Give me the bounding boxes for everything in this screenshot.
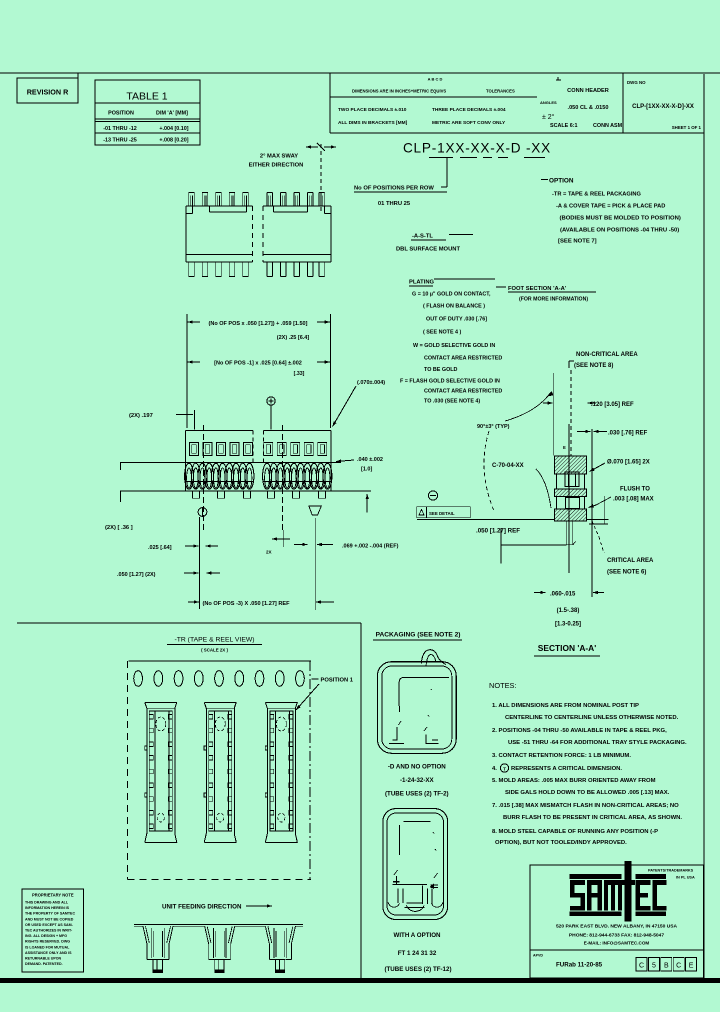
side view right half body xyxy=(263,205,331,207)
svg-text:-13 THRU -25: -13 THRU -25 xyxy=(103,138,137,144)
svg-text:.025 [.64]: .025 [.64] xyxy=(148,545,172,551)
tube 1 outline xyxy=(377,662,456,754)
svg-text:(BODIES MUST BE MOLDED TO POSI: (BODIES MUST BE MOLDED TO POSITION) xyxy=(560,216,681,222)
svg-text:3. CONTACT RETENTION FORCE: 1: 3. CONTACT RETENTION FORCE: 1 LB MINIMUM… xyxy=(492,753,631,759)
title block middle cell xyxy=(556,79,561,81)
revision box xyxy=(17,78,78,103)
dim .030 ref xyxy=(591,429,593,597)
samtec code boxes xyxy=(636,958,647,972)
svg-text:AND MUST NOT BE COPIED: AND MUST NOT BE COPIED xyxy=(25,917,74,921)
svg-text:PROPRIETARY NOTE: PROPRIETARY NOTE xyxy=(32,893,74,898)
tube 1 top bump xyxy=(421,650,445,665)
svg-text:7. .015 [.38] MAX MISMATCH FLA: 7. .015 [.38] MAX MISMATCH FLASH IN NON-… xyxy=(492,803,679,809)
svg-text:ANGLES: ANGLES xyxy=(540,100,557,105)
section body hatched bottom xyxy=(554,509,586,521)
svg-text:SIDE GALS HOLD DOWN TO BE ALLO: SIDE GALS HOLD DOWN TO BE ALLOWED .005 [… xyxy=(505,790,670,796)
side view left half top pins xyxy=(188,193,190,207)
svg-text:CENTERLINE TO CENTERLINE UNLES: CENTERLINE TO CENTERLINE UNLESS OTHERWIS… xyxy=(505,715,679,721)
svg-text:TOLERANCES: TOLERANCES xyxy=(486,89,515,94)
svg-text:(2X) .197: (2X) .197 xyxy=(129,413,153,419)
svg-text:-TR = TAPE & REEL PACKAGING: -TR = TAPE & REEL PACKAGING xyxy=(552,192,642,198)
datum circle symbol xyxy=(428,491,437,500)
angle leader solid arc xyxy=(505,392,551,421)
foot section callout xyxy=(496,286,506,288)
svg-text:-A & COVER TAPE = PICK & PLACE: -A & COVER TAPE = PICK & PLACE PAD xyxy=(556,204,665,210)
right vertical ext with up arrow xyxy=(366,494,368,512)
svg-text:REVISION R: REVISION R xyxy=(27,88,69,97)
svg-text:(No OF POS x .050 [1.27]) + .0: (No OF POS x .050 [1.27]) + .059 [1.50] xyxy=(209,321,308,327)
svg-text:DIM 'A' [MM]: DIM 'A' [MM] xyxy=(156,111,188,117)
svg-text:OR USED EXCEPT AS SAM-: OR USED EXCEPT AS SAM- xyxy=(25,923,74,927)
extension line right xyxy=(314,518,316,610)
small cross mark xyxy=(272,538,290,540)
svg-text:.050 CL & .0150: .050 CL & .0150 xyxy=(568,105,609,111)
section body hatched top xyxy=(554,456,586,474)
table 1 box xyxy=(95,80,200,145)
svg-text:POSITION 1: POSITION 1 xyxy=(321,678,354,684)
option callout xyxy=(541,179,548,181)
svg-text:2° MAX SWAY: 2° MAX SWAY xyxy=(260,154,298,160)
svg-text:CONN ASM: CONN ASM xyxy=(593,123,623,129)
svg-text:2. POSITIONS -04 THRU -50 AVAI: 2. POSITIONS -04 THRU -50 AVAILABLE IN T… xyxy=(492,728,667,734)
svg-text:PATENTS/TRADEMARKS: PATENTS/TRADEMARKS xyxy=(648,869,694,873)
svg-text:OPTION), BUT NOT TOOLED/INDY A: OPTION), BUT NOT TOOLED/INDY APPROVED. xyxy=(495,840,627,846)
svg-text:[.33]: [.33] xyxy=(294,371,305,377)
svg-text:CONTACT AREA RESTRICTED: CONTACT AREA RESTRICTED xyxy=(424,356,502,362)
svg-text:DEMAND. PATENTED.: DEMAND. PATENTED. xyxy=(25,962,63,966)
svg-text:NOTES:: NOTES: xyxy=(489,681,517,690)
svg-text:[1.3-0.25]: [1.3-0.25] xyxy=(555,622,581,628)
svg-text:[No OF POS -1] x .025 [0.64] ±: [No OF POS -1] x .025 [0.64] ±.002 xyxy=(214,361,302,367)
svg-text:(TUBE USES (2) TF-12): (TUBE USES (2) TF-12) xyxy=(384,966,451,973)
svg-text:+.004 [0.10]: +.004 [0.10] xyxy=(159,126,188,132)
diameter symbol on centerline xyxy=(198,508,207,517)
svg-text:WITH A OPTION: WITH A OPTION xyxy=(394,932,442,939)
svg-text:DWG NO: DWG NO xyxy=(627,80,646,85)
extension line left xyxy=(199,517,201,609)
frame right border line xyxy=(703,74,705,978)
svg-text:FURab 11-20-85: FURab 11-20-85 xyxy=(556,962,603,969)
front view left end ticks xyxy=(120,462,122,470)
svg-text:TEC AUTHORIZES IN WRIT-: TEC AUTHORIZES IN WRIT- xyxy=(25,929,73,933)
svg-text:520 PARK EAST BLVD. NEW ALBANY: 520 PARK EAST BLVD. NEW ALBANY, IN 47150… xyxy=(556,924,678,930)
samtec logo t stem xyxy=(625,861,632,922)
side view left half bottom pins xyxy=(188,262,190,277)
svg-text:-D AND NO OPTION: -D AND NO OPTION xyxy=(388,764,446,771)
svg-text:DBL SURFACE MOUNT: DBL SURFACE MOUNT xyxy=(396,247,460,253)
front view left half outline xyxy=(186,430,253,432)
svg-text:SECTION 'A-A': SECTION 'A-A' xyxy=(538,643,596,653)
svg-text:± 2°: ± 2° xyxy=(542,113,555,121)
svg-text:G = 10 µ" GOLD ON CONTACT,: G = 10 µ" GOLD ON CONTACT, xyxy=(412,292,491,298)
svg-text:CRITICAL AREA: CRITICAL AREA xyxy=(607,558,654,564)
front view bottom line xyxy=(120,490,371,492)
svg-text:CLP-1XX-XX-X-D -XX: CLP-1XX-XX-X-D -XX xyxy=(403,141,551,156)
svg-text:CONTACT AREA RESTRICTED: CONTACT AREA RESTRICTED xyxy=(424,389,502,395)
section lead pin below xyxy=(567,521,573,545)
svg-text:4.: 4. xyxy=(492,766,497,772)
svg-text:(.070±.004): (.070±.004) xyxy=(357,380,385,386)
svg-text:(AVAILABLE ON POSITIONS -04 TH: (AVAILABLE ON POSITIONS -04 THRU -50) xyxy=(560,228,679,234)
section dashed line above xyxy=(570,370,572,456)
tape edge lines above end views xyxy=(134,924,303,926)
svg-text:[SEE NOTE 7]: [SEE NOTE 7] xyxy=(558,239,597,245)
svg-text:APVD: APVD xyxy=(533,954,543,958)
svg-text:E-MAIL: INFO@SAMTEC.COM: E-MAIL: INFO@SAMTEC.COM xyxy=(584,941,650,946)
svg-text:TABLE 1: TABLE 1 xyxy=(126,91,167,103)
svg-text:(TUBE USES (2) TF-2): (TUBE USES (2) TF-2) xyxy=(385,791,449,798)
svg-text:UNIT FEEDING DIRECTION: UNIT FEEDING DIRECTION xyxy=(162,904,242,911)
svg-text:.060-.015: .060-.015 xyxy=(550,592,576,598)
svg-text:SEE DETAIL: SEE DETAIL xyxy=(429,511,455,516)
svg-text:CLP-[1XX-XX-X-D]-XX: CLP-[1XX-XX-X-D]-XX xyxy=(632,104,694,110)
svg-text:90°±3° (TYP): 90°±3° (TYP) xyxy=(477,424,510,430)
front view contact ovals xyxy=(185,463,194,489)
svg-text:BURR FLASH TO BE PRESENT IN CR: BURR FLASH TO BE PRESENT IN CRITICAL ARE… xyxy=(503,815,682,821)
datum trapezoid flag xyxy=(309,506,322,515)
samtec logo letters xyxy=(570,880,585,885)
section body hatched mid xyxy=(554,489,586,497)
svg-text:( FLASH ON BALANCE ): ( FLASH ON BALANCE ) xyxy=(423,304,485,310)
pocket end view 2 xyxy=(205,926,209,944)
svg-text:A B C D: A B C D xyxy=(428,77,443,82)
svg-text:Ø.070 [1.65] 2X: Ø.070 [1.65] 2X xyxy=(607,460,650,466)
dim .069 ref xyxy=(294,544,308,546)
tube 2 bottom corrugation xyxy=(388,902,400,907)
pocket connector 3 xyxy=(265,701,297,703)
svg-text:( SCALE 2X ): ( SCALE 2X ) xyxy=(201,648,228,653)
tube 1 inner bore xyxy=(399,678,449,707)
dim B line and text xyxy=(188,361,200,363)
pcb baseline right xyxy=(587,518,609,520)
samtec box divider xyxy=(530,949,704,951)
svg-text:2X: 2X xyxy=(266,550,273,555)
pocket connector 2 xyxy=(204,701,236,703)
samtec logo bars xyxy=(570,874,622,879)
section contact window 1 xyxy=(557,474,585,489)
lead bottom line xyxy=(501,544,567,546)
svg-text:8. MOLD STEEL CAPABLE OF RUNNI: 8. MOLD STEEL CAPABLE OF RUNNING ANY POS… xyxy=(492,829,658,835)
front view mid shelf line xyxy=(120,461,341,463)
position 1 label xyxy=(312,678,319,680)
front view contact windows xyxy=(190,442,199,455)
pocket connector 1 xyxy=(145,701,177,703)
front view feet tabs xyxy=(193,491,200,498)
section ext line above xyxy=(552,373,554,456)
svg-text:FOOT SECTION 'A-A': FOOT SECTION 'A-A' xyxy=(508,286,567,292)
svg-text:SHEET 1 OF 1: SHEET 1 OF 1 xyxy=(672,125,702,130)
dim A extension lines xyxy=(186,314,188,428)
svg-text:IS LOANED FOR MUTUAL: IS LOANED FOR MUTUAL xyxy=(25,945,70,949)
section centerline xyxy=(568,424,570,573)
pcb baseline left xyxy=(417,518,555,520)
svg-text:-01 THRU -12: -01 THRU -12 xyxy=(103,126,137,132)
svg-text:USE -51 THRU -64 FOR ADDITIONA: USE -51 THRU -64 FOR ADDITIONAL TRAY STY… xyxy=(508,740,687,746)
side view right half top pins xyxy=(266,193,268,207)
svg-text:IN PL USA: IN PL USA xyxy=(676,876,695,880)
svg-text:( SEE NOTE 4 ): ( SEE NOTE 4 ) xyxy=(423,330,462,336)
svg-text:FT 1 24 31 32: FT 1 24 31 32 xyxy=(398,950,437,957)
svg-text:THE PROPERTY OF SAMTEC: THE PROPERTY OF SAMTEC xyxy=(25,912,75,916)
section contact window 2 xyxy=(557,497,585,510)
svg-text:METRIC ARE SOFT CONV ONLY: METRIC ARE SOFT CONV ONLY xyxy=(432,120,506,126)
pocket end view 3 xyxy=(265,926,269,944)
dwg no box xyxy=(622,73,624,133)
tube 1 connector inside xyxy=(393,727,398,740)
svg-text:ING. ALL DESIGN + MFG: ING. ALL DESIGN + MFG xyxy=(25,934,67,938)
bottom count dim xyxy=(188,601,199,603)
svg-text:E: E xyxy=(689,963,694,970)
svg-text:OUT OF DUTY .030 [.76]: OUT OF DUTY .030 [.76] xyxy=(426,317,487,323)
svg-text:.050 [1.27] (2X): .050 [1.27] (2X) xyxy=(117,572,156,578)
svg-text:(2X) .25 [6.4]: (2X) .25 [6.4] xyxy=(277,335,310,341)
svg-text:(1.5-.38): (1.5-.38) xyxy=(557,608,580,614)
svg-text:5: 5 xyxy=(652,963,656,970)
drawing frame top border line xyxy=(0,72,720,74)
lower area divider line xyxy=(17,622,361,624)
svg-text:THREE PLACE DECIMALS ±.004: THREE PLACE DECIMALS ±.004 xyxy=(432,107,506,113)
svg-text:.030 [.76] REF: .030 [.76] REF xyxy=(608,431,648,437)
tube 2 inner bore xyxy=(403,821,430,823)
critical area leader dashed xyxy=(592,521,599,537)
right ext line short xyxy=(603,496,605,524)
pocket end view 1 xyxy=(143,926,147,944)
front view lower rib lines xyxy=(186,480,253,482)
svg-text:.003 [.08] MAX: .003 [.08] MAX xyxy=(613,497,654,503)
svg-text:.040 ±.002: .040 ±.002 xyxy=(357,457,383,463)
svg-text:-TR (TAPE & REEL VIEW): -TR (TAPE & REEL VIEW) xyxy=(174,637,254,644)
svg-text:[1.0]: [1.0] xyxy=(361,467,372,473)
svg-text:SCALE 6:1: SCALE 6:1 xyxy=(550,123,578,129)
front view centerlines dashed xyxy=(203,425,205,533)
svg-text:INFORMATION HEREIN IS: INFORMATION HEREIN IS xyxy=(25,906,70,910)
angle leader dashed arc xyxy=(484,431,494,511)
svg-text:(FOR MORE INFORMATION): (FOR MORE INFORMATION) xyxy=(519,297,588,303)
svg-text:-1-24-32-XX: -1-24-32-XX xyxy=(400,777,435,784)
svg-text:NON-CRITICAL AREA: NON-CRITICAL AREA xyxy=(576,352,638,358)
side view right half bottom pins xyxy=(266,262,268,277)
svg-text:ALL DIMS IN BRACKETS [MM]: ALL DIMS IN BRACKETS [MM] xyxy=(338,120,408,126)
svg-text:REPRESENTS A CRITICAL DIMENSIO: REPRESENTS A CRITICAL DIMENSION. xyxy=(511,766,622,772)
svg-text:TWO PLACE DECIMALS ±.010: TWO PLACE DECIMALS ±.010 xyxy=(338,107,407,113)
tube 2 connector inside xyxy=(392,883,427,885)
svg-text:B: B xyxy=(664,963,669,970)
title block left cell xyxy=(329,73,331,133)
svg-text:EITHER DIRECTION: EITHER DIRECTION xyxy=(249,163,304,169)
sway arrows xyxy=(306,146,318,148)
dim .120 ref xyxy=(543,402,553,404)
svg-text:.069 +.002 -.004 (REF): .069 +.002 -.004 (REF) xyxy=(342,544,399,550)
svg-text:01 THRU 25: 01 THRU 25 xyxy=(378,201,411,207)
sway centerline dashed xyxy=(320,144,322,212)
svg-text:-A-S-TL: -A-S-TL xyxy=(412,234,433,240)
leader positions-per-row xyxy=(446,158,448,187)
svg-text:OPTION: OPTION xyxy=(549,178,574,185)
svg-text:THIS DRAWING AND ALL: THIS DRAWING AND ALL xyxy=(25,901,69,905)
svg-text:F = FLASH GOLD SELECTIVE GOLD: F = FLASH GOLD SELECTIVE GOLD IN xyxy=(400,379,500,385)
svg-text:RETURNABLE UPON: RETURNABLE UPON xyxy=(25,957,62,961)
section bottom dim xyxy=(534,592,546,594)
svg-text:T: T xyxy=(503,766,506,771)
svg-text:TO .030 (SEE NOTE 4): TO .030 (SEE NOTE 4) xyxy=(424,399,480,405)
svg-text:1. ALL DIMENSIONS ARE FROM NOM: 1. ALL DIMENSIONS ARE FROM NOMINAL POST … xyxy=(492,703,639,709)
svg-text:PHONE: 812-944-6733 FAX: 812-: PHONE: 812-944-6733 FAX: 812-948-5047 xyxy=(569,933,664,939)
svg-text:POSITION: POSITION xyxy=(108,111,134,117)
svg-text:5. MOLD AREAS: .005 MAX BURR O: 5. MOLD AREAS: .005 MAX BURR ORIENTED AW… xyxy=(492,778,656,784)
dim A line and text xyxy=(188,321,200,323)
svg-text:.050 [1.27] REF: .050 [1.27] REF xyxy=(476,528,520,535)
svg-text:W = GOLD SELECTIVE GOLD IN: W = GOLD SELECTIVE GOLD IN xyxy=(413,343,495,349)
svg-text:RIGHTS RESERVED. DWG: RIGHTS RESERVED. DWG xyxy=(25,940,70,944)
svg-text:C: C xyxy=(676,963,681,970)
svg-text:E: E xyxy=(563,445,566,450)
svg-text:+.008 [0.20]: +.008 [0.20] xyxy=(159,138,188,144)
svg-text:TO BE GOLD: TO BE GOLD xyxy=(424,367,458,373)
svg-text:C-70-04-XX: C-70-04-XX xyxy=(492,463,524,469)
svg-text:PLATING: PLATING xyxy=(409,280,435,286)
svg-text:No OF POSITIONS PER ROW: No OF POSITIONS PER ROW xyxy=(354,186,434,192)
svg-text:(No OF POS -3) X .050 [1.27] R: (No OF POS -3) X .050 [1.27] REF xyxy=(203,601,291,607)
svg-text:(2X) [ .36 ]: (2X) [ .36 ] xyxy=(105,525,133,531)
front view right half outline xyxy=(264,430,331,432)
tube 2 outline xyxy=(383,809,448,920)
confidential note box xyxy=(22,889,84,972)
tape sprocket holes xyxy=(134,671,143,687)
svg-text:PACKAGING (SEE NOTE 2): PACKAGING (SEE NOTE 2) xyxy=(376,632,461,639)
svg-text:.120 [3.05] REF: .120 [3.05] REF xyxy=(591,402,634,408)
svg-text:(SEE NOTE 6): (SEE NOTE 6) xyxy=(607,570,646,576)
svg-text:DIMENSIONS ARE IN INCHES+METRI: DIMENSIONS ARE IN INCHES+METRIC EQUIVS xyxy=(352,89,446,94)
column divider vertical xyxy=(360,623,362,978)
svg-text:ASSISTANCE ONLY AND IS: ASSISTANCE ONLY AND IS xyxy=(25,951,72,955)
svg-text:FLUSH TO: FLUSH TO xyxy=(620,487,650,493)
samtec box xyxy=(530,865,704,978)
svg-text:(SEE NOTE 8): (SEE NOTE 8) xyxy=(574,363,613,369)
side view left half body xyxy=(186,205,252,207)
svg-text:C: C xyxy=(639,963,644,970)
datum feature box xyxy=(417,507,471,518)
tolerance circle symbol xyxy=(267,397,275,405)
frame zone tick left xyxy=(77,73,79,80)
tape outline xyxy=(129,660,311,662)
svg-text:CONN HEADER: CONN HEADER xyxy=(567,88,609,94)
bottom thick border bar xyxy=(0,978,720,983)
